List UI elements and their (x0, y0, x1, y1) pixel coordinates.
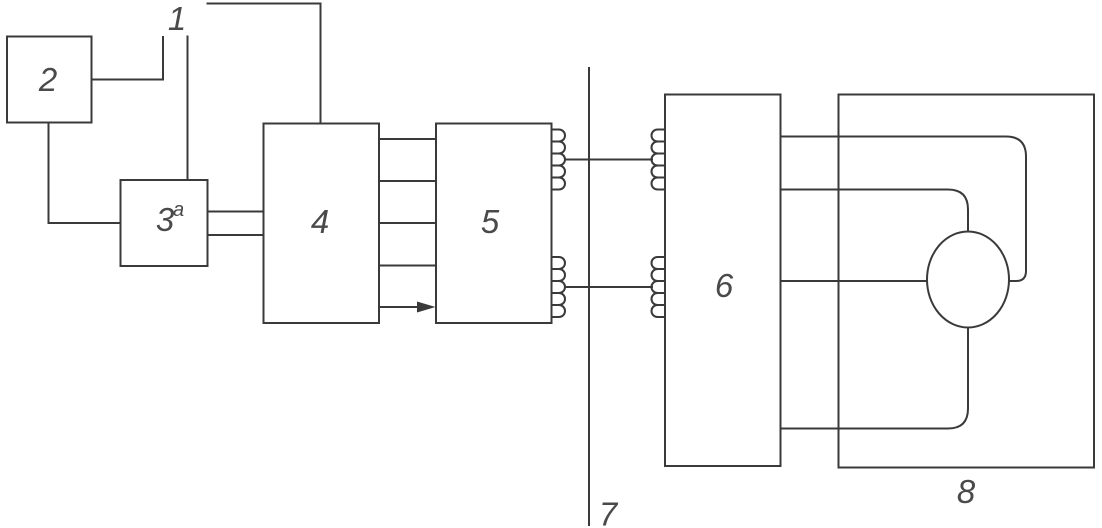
svg-text:4: 4 (311, 203, 329, 240)
svg-text:5: 5 (481, 203, 500, 240)
svg-text:2: 2 (38, 61, 57, 98)
svg-text:a: a (173, 199, 184, 221)
svg-text:3: 3 (156, 201, 175, 238)
svg-text:8: 8 (957, 473, 976, 510)
svg-text:1: 1 (168, 0, 186, 37)
svg-text:7: 7 (599, 496, 619, 528)
svg-text:6: 6 (715, 267, 734, 304)
